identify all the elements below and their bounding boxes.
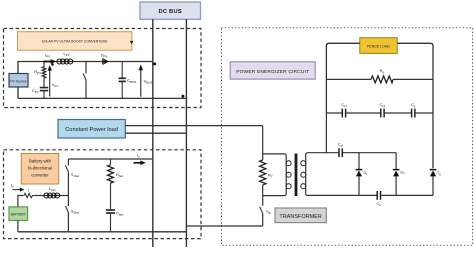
svg-text:Lbat: Lbat [49,186,56,192]
wire battery top rail [68,158,152,160]
wire CPL top / energizer feed [125,125,262,127]
svg-text:Ib: Ib [11,183,14,189]
svg-text:RT: RT [268,173,273,179]
capacitor C_PV [32,88,48,99]
diode D_T [393,153,405,196]
resistor R_PV [34,62,46,88]
switch S1_bat [65,159,79,196]
wire fence loop top right [397,43,433,168]
capacitor C_b2 [346,103,386,118]
resistor r [24,188,34,198]
wire DC bus line 2 [185,19,187,247]
svg-text:Cb1: Cb1 [341,103,347,108]
svg-text:DC BUS: DC BUS [158,9,181,15]
wire CPL bottom [125,132,186,134]
node junction dot bus1/top rail [153,62,156,65]
svg-text:Cg: Cg [411,103,416,108]
svg-text:VPV: VPV [52,82,59,88]
svg-text:Battery with: Battery with [29,159,52,164]
transformer core [295,154,298,197]
resistor R_bat [108,159,124,210]
svg-text:S1bat: S1bat [71,173,79,178]
transformer secondary winding [301,153,308,196]
svg-text:BATTERY: BATTERY [11,213,27,217]
svg-text:Cpf: Cpf [338,142,343,147]
FENCE LOAD box [360,38,397,54]
svg-text:Cb2: Cb2 [380,103,386,108]
solar converter dashed region border [4,29,202,108]
svg-text:Tg: Tg [437,171,441,176]
svg-text:IPV: IPV [45,53,50,59]
svg-text:TRANSFORMER: TRANSFORMER [279,214,322,220]
current arrow I_b [11,183,25,192]
wire battery left vertical [18,196,24,207]
resistor R_g [326,68,433,83]
battery dashed region border [4,150,202,239]
wire battery bottom rail [18,231,187,233]
wire solar top rail [18,62,153,99]
current arrow I_PV [44,53,57,64]
svg-text:LPV: LPV [64,51,70,57]
wire solar bottom rail [18,97,186,99]
capacitor C_bat [106,210,123,232]
svg-text:SE: SE [266,210,270,215]
voltage arrow V_BUS [139,65,153,97]
svg-text:DPV: DPV [101,53,108,59]
label POWER ENERGIZER CIRCUIT [230,62,315,79]
TRANSFORMER label box [275,208,326,223]
diode D_PV [101,53,109,65]
current arrow I_o [134,153,146,166]
inductor L_PV [57,51,73,64]
diode T_g [430,170,442,196]
inductor L_bat [44,186,60,198]
Constant Power load box [58,120,125,139]
svg-text:RPV: RPV [34,69,41,75]
svg-text:VBUS: VBUS [144,78,153,84]
svg-text:Io: Io [137,153,140,159]
svg-text:DL: DL [364,171,369,176]
svg-text:CBUS: CBUS [127,78,136,84]
svg-text:S2bat: S2bat [71,210,79,215]
power energizer dotted region border [222,28,473,246]
wire to inductor [34,195,42,197]
wire DC bus line 1 [152,19,154,247]
label SOLAR PV ULTRA BOOST CONVERTERS [18,32,132,51]
svg-text:Constant Power load: Constant Power load [65,127,118,133]
wire fence loop top left [326,43,359,113]
capacitor C_g [384,103,433,118]
voltage arrow V_PV [48,65,59,96]
switch S_E [260,207,271,226]
label Battery with bi-directional converter [21,154,58,185]
svg-text:converter: converter [31,173,49,178]
node junction dot bus2/bottom rail [181,95,184,98]
switch (boost) [83,62,86,99]
svg-text:POWER ENERGIZER CIRCUIT: POWER ENERGIZER CIRCUIT [236,69,309,75]
wire cap row drop [325,113,327,153]
capacitor C_BUS [119,62,137,99]
svg-text:Rbat: Rbat [116,172,123,178]
capacitor C_b1 [326,103,347,118]
node dot on V_PV arrow top [51,63,54,66]
svg-text:FENCE LOAD: FENCE LOAD [367,44,390,48]
wire energizer bottom feed [186,225,262,227]
svg-text:r: r [28,188,30,193]
PV source box [9,74,28,88]
svg-text:CPV: CPV [32,88,39,94]
diode D_L [356,153,368,196]
resistor R_T on feed line [260,126,273,206]
svg-text:bi-directional: bi-directional [28,166,52,171]
marker arrow on solar label box [130,41,134,44]
transformer primary winding [263,154,291,196]
wire secondary bottom rail / capacitor C_d [308,191,433,207]
svg-text:DT: DT [401,171,406,176]
svg-text:Cbat: Cbat [116,211,123,217]
svg-text:SOLAR PV ULTRA BOOST CONVERTER: SOLAR PV ULTRA BOOST CONVERTERS [42,40,108,44]
capacitor C_pf on secondary top wire [308,142,396,157]
DC BUS label box [140,2,201,19]
BATTERY box [9,207,28,221]
svg-text:Cd: Cd [377,202,382,207]
svg-text:Rg: Rg [380,68,385,74]
svg-text:PV Source: PV Source [10,79,26,83]
wire inductor to half-bridge [61,195,69,197]
switch S2_bat [65,196,79,232]
